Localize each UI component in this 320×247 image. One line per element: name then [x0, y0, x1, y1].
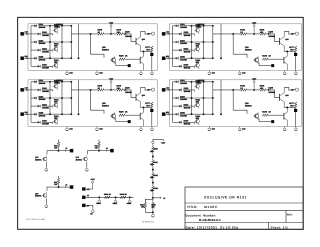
- gate U4 row5 junction b: [212, 113, 214, 115]
- gate U1 wire to Q base: [128, 34, 136, 42]
- svg-text:10K: 10K: [54, 117, 58, 120]
- gate U1 emitter pad: [128, 64, 131, 67]
- gate U4 row5 wire to bus: [180, 113, 213, 115]
- gate U4 enclosure box: [170, 80, 302, 127]
- svg-text:10K: 10K: [196, 26, 200, 29]
- gate U2 collector wire to output: [284, 31, 295, 34]
- gate U3 row1 wire: [31, 81, 34, 83]
- cell D pad 3 stub wire: [86, 205, 93, 208]
- gate U3 enclosure box: [28, 80, 157, 127]
- gate U3 row5 junction b: [70, 113, 72, 115]
- gate U1 ground symbol x39: [66, 71, 68, 72]
- bias cell A node wire: [47, 148, 59, 155]
- gate U2 mid vertical bus: [203, 26, 205, 58]
- gate U4 input terminal pad B: [162, 112, 166, 116]
- gate U3 resistor R177 ground wire: [151, 108, 153, 127]
- gate U3 row5 wire to bus: [38, 113, 71, 115]
- bias cell A output wire: [59, 150, 70, 152]
- svg-text:2N3904: 2N3904: [35, 195, 42, 198]
- svg-text:Q60: Q60: [142, 38, 145, 41]
- gate U1 row3 wire to bus: [38, 41, 71, 43]
- gate U3 emitter pad: [128, 120, 131, 123]
- gate U3 emitter wire: [141, 106, 152, 108]
- gate U1 transistor Q59: [54, 64, 58, 68]
- svg-text:1N4448: 1N4448: [125, 91, 133, 94]
- chain junction 2: [152, 182, 154, 184]
- gate U1 row4 wire: [31, 49, 38, 51]
- svg-text:1N4448: 1N4448: [42, 123, 50, 126]
- gate U4 output transistor Q60: [279, 94, 281, 101]
- gate U3 row5 junction: [61, 113, 63, 115]
- svg-text:Document Number:: Document Number:: [185, 213, 216, 217]
- gate U3 ground symbol x69: [96, 127, 98, 128]
- gate U4 row2 wire to base: [183, 89, 193, 91]
- svg-text:2N3904: 2N3904: [245, 104, 253, 107]
- svg-text:Q60: Q60: [285, 38, 288, 41]
- bias cell B transistor Q70: [84, 157, 88, 161]
- svg-text:Sheet: 1/1: Sheet: 1/1: [271, 225, 289, 229]
- gate U2 input wire B: [165, 57, 172, 59]
- gate U1 row2 wire: [31, 33, 38, 35]
- gate U1 wire to diode: [123, 33, 125, 35]
- chain wire segment 0: [152, 153, 154, 161]
- gate U2 diode D102: [179, 33, 182, 36]
- gate U4 emitter wire: [284, 106, 295, 108]
- gate U2 wire to Q base: [271, 34, 280, 42]
- cell D resistor R242: [120, 196, 126, 199]
- gate U2 resistor R178: [262, 58, 268, 61]
- gate U3 row2 wire to base: [42, 89, 52, 91]
- gate U2 transistor Q58: [196, 47, 200, 51]
- svg-text:TITLE:: TITLE:: [187, 205, 198, 209]
- gate U4 row1 junction: [203, 81, 205, 83]
- svg-text:10K: 10K: [117, 31, 121, 34]
- gate U4 ground symbol x113: [284, 127, 286, 128]
- bias cell A resistor top stub: [58, 140, 60, 143]
- gate U1 row3 wire: [31, 41, 34, 43]
- gate U1 output transistor Q60: [135, 38, 137, 45]
- bias cell B resistor top stub: [98, 140, 100, 143]
- svg-text:1N4448: 1N4448: [180, 26, 188, 29]
- gate U4 row5 junction: [203, 113, 205, 115]
- chain wire segment 1: [152, 166, 154, 174]
- gate U3 row3 wire: [31, 97, 34, 99]
- svg-text:10K: 10K: [196, 61, 200, 64]
- gate U1 emitter wire: [141, 50, 152, 52]
- svg-text:10K: 10K: [196, 82, 200, 85]
- gate U4 ground symbol x124: [295, 127, 297, 128]
- svg-text:GND1: GND1: [113, 202, 118, 205]
- gate U1 feedback bus: [90, 34, 92, 54]
- gate U4 row6 wire to base: [183, 121, 193, 123]
- svg-text:1N4448: 1N4448: [42, 106, 50, 109]
- gate U4 transistor Q64: [283, 113, 285, 120]
- chain resistor R235: [152, 203, 155, 208]
- gate U1 transistor Q64: [139, 57, 141, 64]
- svg-text:B13: B13: [25, 111, 28, 114]
- gate U1 input wire A: [24, 33, 31, 35]
- svg-text:REV:: REV:: [287, 214, 293, 217]
- gate U4 diode D101: [176, 81, 179, 84]
- svg-text:10K: 10K: [196, 44, 200, 47]
- gate U1 transistor Q58: [54, 47, 58, 51]
- gate U1 left vertical bus: [30, 26, 32, 67]
- svg-text:10K: 10K: [260, 87, 264, 90]
- svg-text:A13: A13: [25, 31, 28, 34]
- gate U3 supply rail wire: [71, 89, 98, 91]
- svg-text:Date: 10/17/2001 01:10:55a: Date: 10/17/2001 01:10:55a: [186, 225, 239, 229]
- gate U1 input terminal pad B: [20, 57, 24, 61]
- gate U4 diode D105: [176, 113, 179, 116]
- bias cell C node wire: [47, 184, 59, 191]
- gate U2 input terminal pad B: [162, 57, 166, 61]
- svg-text:1N4448: 1N4448: [184, 90, 192, 93]
- gate U3 row6 wire: [31, 121, 38, 123]
- bias cell B output wire: [99, 150, 110, 152]
- gate U1 transistor Q57: [54, 28, 58, 32]
- gate U2 output port: [295, 32, 298, 35]
- gate U3 transistor Q63: [111, 114, 115, 118]
- svg-text:A13: A13: [25, 87, 28, 90]
- sheet border frame: [18, 17, 304, 229]
- gate U1 row2 wire to base: [42, 33, 52, 35]
- gate U4 diode D102: [179, 89, 182, 92]
- gate U4 wire R178 to Q64: [268, 114, 284, 116]
- svg-text:10K: 10K: [54, 26, 58, 29]
- svg-text:2N3904: 2N3904: [245, 48, 253, 51]
- gate U2 emitter pad: [271, 64, 274, 67]
- svg-text:1N4448: 1N4448: [39, 114, 47, 117]
- gate U2 right vertical bus: [212, 26, 214, 58]
- gate U4 resistor R177: [294, 102, 297, 108]
- gate U4 ground symbol x69: [239, 127, 241, 128]
- gate U2 transistor Q64: [283, 57, 285, 64]
- cell D junction 1: [98, 196, 100, 198]
- gate U1 mid vertical bus: [61, 26, 63, 58]
- svg-text:GND0: GND0: [96, 202, 101, 205]
- bias cell B emitter wire: [86, 163, 88, 167]
- gate U4 supply rail wire: [213, 89, 241, 91]
- gate U3 row4 wire: [31, 105, 38, 107]
- gate U3 transistor Q64: [139, 113, 141, 120]
- gate U4 transistor Q57: [196, 84, 200, 88]
- bias cell B output terminal pad: [110, 149, 114, 153]
- svg-text:1N4448: 1N4448: [39, 98, 47, 101]
- gate U2 resistor R177 ground wire: [295, 52, 297, 71]
- svg-text:1N4448: 1N4448: [180, 98, 188, 101]
- gate U1 diode D105: [34, 57, 37, 60]
- chain resistor R231: [152, 160, 155, 166]
- gate U1 row5 junction: [61, 57, 63, 59]
- chain wire segment 2: [152, 179, 154, 187]
- gate U3 row4 wire to base: [42, 105, 52, 107]
- gate U4 row3 junction b: [212, 97, 214, 99]
- svg-text:A13: A13: [166, 87, 169, 90]
- cell D ground symbol 4: [92, 208, 94, 209]
- gate U4 feedback bus: [232, 90, 234, 110]
- gate U2 transistor Q63: [255, 58, 259, 62]
- gate U2 supply node junction: [253, 33, 255, 35]
- cell D ground symbol 1: [98, 199, 100, 200]
- gate U2 transistor Q59: [196, 64, 200, 68]
- gate U3 resistor R175: [98, 89, 104, 92]
- svg-text:2N3904: 2N3904: [102, 48, 110, 51]
- gate U2 row4 wire: [173, 49, 180, 51]
- svg-text:1N4448: 1N4448: [268, 91, 276, 94]
- gate U1 diode D101: [34, 25, 37, 28]
- bias cell C resistor R210: [57, 178, 60, 184]
- gate U3 left vertical bus: [30, 82, 32, 123]
- gate U4 row1 wire: [173, 81, 176, 83]
- gate U3 transistor Q57: [54, 84, 58, 88]
- gate U2 transistor Q57: [196, 28, 200, 32]
- title block sheet divider: [268, 223, 270, 230]
- svg-text:1N4448: 1N4448: [180, 42, 188, 45]
- gate U1 collector wire to output: [141, 31, 152, 34]
- gate U1 resistor R176: [117, 33, 123, 36]
- gate U1 diode D109: [125, 33, 128, 36]
- gate U2 emitter wire: [284, 50, 295, 52]
- gate U2 row5 junction b: [212, 57, 214, 59]
- gate U4 mid vertical bus: [203, 82, 205, 114]
- title block line under title: [185, 209, 303, 211]
- title block rev divider: [285, 210, 287, 222]
- chain wire segment 3: [152, 192, 154, 198]
- gate U1 collector tie wire: [143, 50, 145, 52]
- gate U4 input wire B: [165, 113, 172, 115]
- gate U2 row1 junction b: [212, 25, 214, 27]
- bias cell C node junction: [58, 186, 60, 188]
- bias cell C transistor Q70: [43, 194, 47, 198]
- gate U4 left vertical bus: [172, 82, 174, 123]
- bias cell A transistor Q70: [43, 157, 47, 161]
- gate U2 diode D109: [268, 33, 271, 36]
- gate U4 wire to Q base: [271, 90, 280, 98]
- gate U1 emitter pad wire: [115, 62, 117, 65]
- gate U3 far vertical bus: [78, 80, 80, 114]
- gate U3 output transistor Q60: [135, 94, 137, 101]
- svg-text:R231: R231: [154, 161, 158, 164]
- gate U4 input wire A: [165, 89, 172, 91]
- chain resistor R233: [152, 186, 155, 192]
- gate U3 base feed bus: [49, 82, 51, 114]
- svg-text:10K: 10K: [196, 100, 200, 103]
- gate U3 row5 wire: [31, 113, 34, 115]
- bias cell C output terminal pad: [70, 185, 74, 189]
- bias cell B node wire: [88, 148, 100, 155]
- gate U2 far vertical bus: [220, 24, 222, 58]
- svg-text:1N4448: 1N4448: [39, 58, 47, 61]
- gate U2 row1 junction: [203, 25, 205, 27]
- svg-text:1N4448: 1N4448: [42, 67, 50, 70]
- gate U3 output pad: [150, 109, 153, 112]
- cell D ground symbol 2: [115, 199, 117, 200]
- gate U4 row1 wire to bus: [180, 81, 213, 83]
- svg-text:A13: A13: [166, 31, 169, 34]
- gate U2 row2 wire to base: [183, 33, 193, 35]
- gate U3 ground symbol x113: [140, 127, 142, 128]
- gate U1 row1 junction b: [70, 25, 72, 27]
- svg-text:R233: R233: [154, 187, 158, 190]
- gate U1 row1 wire to bus: [38, 25, 71, 27]
- bias cell A emitter wire: [45, 163, 47, 167]
- gate U4 output port: [295, 88, 298, 91]
- gate U2 base feed bus: [191, 26, 193, 58]
- gate U3 diode D109: [125, 89, 128, 92]
- svg-text:J2: J2: [65, 183, 67, 186]
- gate U1 input terminal pad A: [20, 32, 24, 36]
- svg-text:1N4448: 1N4448: [39, 42, 47, 45]
- gate U2 row5 wire: [173, 57, 176, 59]
- gate U4 diode D104: [179, 105, 182, 108]
- svg-text:10K: 10K: [196, 117, 200, 120]
- chain resistor R234: [144, 203, 147, 208]
- gate U4 transistor Q58: [196, 103, 200, 107]
- gate U1 row1 junction: [61, 25, 63, 27]
- gate U3 row1 wire to bus: [38, 81, 71, 83]
- gate U2 input wire A: [165, 33, 172, 35]
- gate U4 wire rail mid: [247, 89, 260, 91]
- gate U1 ground symbol x69: [96, 71, 98, 72]
- gate U4 row3 wire: [173, 97, 176, 99]
- gate U3 wire R178 to Q64: [125, 114, 140, 116]
- gate U3 resistor R176: [117, 89, 123, 92]
- svg-text:1N4448: 1N4448: [39, 26, 47, 29]
- gate U1 diode D106: [38, 65, 41, 68]
- gate U3 diode D104: [38, 105, 41, 108]
- bias cell B node junction: [98, 150, 100, 152]
- gate U1 row3 junction: [61, 41, 63, 43]
- gate U4 transistor Q59: [196, 120, 200, 124]
- gate U1 resistor R177 ground wire: [151, 52, 153, 71]
- gate U1 row4 wire to base: [42, 49, 52, 51]
- svg-text:1N4448: 1N4448: [180, 58, 188, 61]
- gate U1 resistor R177: [150, 46, 153, 52]
- gate U4 row6 wire: [173, 121, 180, 123]
- bias cell B resistor R210: [98, 142, 101, 148]
- gate U1 ground symbol x113: [140, 71, 142, 72]
- gate U3 collector tie wire: [143, 106, 145, 108]
- gate U3 mid vertical bus: [61, 82, 63, 114]
- gate U2 ground symbol x69: [239, 71, 241, 72]
- gate U2 resistor R175: [241, 33, 247, 36]
- gate U2 row3 wire: [173, 41, 176, 43]
- gate U2 diode D101: [176, 25, 179, 28]
- cell D pad 1: [82, 187, 85, 190]
- svg-text:Q60: Q60: [142, 94, 145, 97]
- svg-text:330: 330: [54, 146, 57, 149]
- svg-text:J2: J2: [65, 147, 67, 150]
- bias cell A resistor R210: [57, 142, 60, 148]
- svg-text:10K: 10K: [54, 100, 58, 103]
- gate U3 wire to diode: [123, 89, 125, 91]
- gate U1 input wire B: [24, 57, 31, 59]
- gate U2 wire rail mid: [247, 33, 260, 35]
- gate U1 wire rail mid: [104, 33, 117, 35]
- bias cell A ground symbol: [45, 167, 47, 168]
- chain loop top wire: [145, 199, 153, 202]
- svg-text:10K: 10K: [117, 87, 121, 90]
- svg-text:Q60: Q60: [285, 94, 288, 97]
- gate U3 resistor R178: [119, 114, 125, 117]
- svg-text:2N Reference: 2N Reference: [142, 221, 155, 224]
- gate U2 row3 junction: [203, 41, 205, 43]
- svg-text:10K: 10K: [54, 44, 58, 47]
- gate U3 input terminal pad A: [20, 88, 24, 92]
- gate U2 diode D105: [176, 57, 179, 60]
- gate U2 row5 wire to bus: [180, 57, 213, 59]
- svg-text:1N4448: 1N4448: [184, 67, 192, 70]
- gate U3 feedback bus: [90, 90, 92, 110]
- gate U3 transistor Q59: [54, 120, 58, 124]
- svg-text:1N4448: 1N4448: [42, 90, 50, 93]
- title block line under docnum: [185, 222, 303, 224]
- gate U1 row6 wire: [31, 65, 38, 67]
- gate U4 emitter pad: [271, 120, 274, 123]
- gate U2 enclosure box: [170, 24, 302, 71]
- svg-text:R232: R232: [154, 174, 158, 177]
- gate U2 row4 wire to base: [183, 49, 193, 51]
- gate U3 ground symbol x124: [151, 127, 153, 128]
- gate U4 input terminal pad A: [162, 88, 166, 92]
- chain bottom junction: [152, 211, 154, 213]
- svg-text:10K: 10K: [54, 61, 58, 64]
- svg-text:330: 330: [95, 146, 98, 149]
- gate U3 resistor R177: [150, 102, 153, 108]
- bias cell C output wire: [59, 186, 70, 188]
- gate U4 wire to diode: [266, 89, 268, 91]
- svg-text:1N4448: 1N4448: [184, 50, 192, 53]
- svg-text:1N4448: 1N4448: [184, 106, 192, 109]
- gate U4 transistor Q63: [255, 114, 259, 118]
- gate U3 row2 wire: [31, 89, 38, 91]
- svg-text:1N4448: 1N4448: [180, 82, 188, 85]
- chain top port: [152, 141, 154, 143]
- gate U1 output port: [151, 32, 154, 35]
- svg-text:10K: 10K: [260, 31, 264, 34]
- gate U4 supply node junction: [253, 89, 255, 91]
- svg-text:+12: +12: [86, 188, 89, 191]
- svg-text:1K0: 1K0: [150, 150, 153, 153]
- gate U2 wire R178 to Q64: [268, 58, 284, 60]
- gate U4 row2 wire: [173, 89, 180, 91]
- cell D pad 2 wire: [86, 196, 134, 198]
- title block line under banner: [185, 202, 303, 204]
- gate U2 resistor R177: [294, 46, 297, 52]
- gate U1 supply node junction: [110, 33, 112, 35]
- svg-text:EXCLUSIVE OR R131: EXCLUSIVE OR R131: [204, 195, 247, 199]
- gate U1 output pad: [150, 53, 153, 56]
- gate U2 emitter pad wire: [258, 62, 260, 65]
- gate U3 transistor Q58: [54, 103, 58, 107]
- cell D junction 2: [115, 196, 117, 198]
- gate U3 diode D103: [34, 97, 37, 100]
- gate U3 input wire B: [24, 113, 31, 115]
- gate U3 supply node junction: [110, 89, 112, 91]
- gate U2 output pad: [294, 53, 297, 56]
- gate U4 row1 junction b: [212, 81, 214, 83]
- chain resistor R230: [152, 147, 155, 153]
- svg-text:1K0: 1K0: [150, 189, 153, 192]
- gate U4 emitter pad wire: [258, 118, 260, 121]
- gate U2 ground symbol x39: [208, 71, 210, 72]
- gate U3 wire to Q base: [128, 90, 136, 98]
- gate U1 diode D102: [38, 33, 41, 36]
- gate U1 diode D103: [34, 41, 37, 44]
- gate U1 row5 junction b: [70, 57, 72, 59]
- gate U4 diode D109: [268, 89, 271, 92]
- gate U2 collector tie wire: [286, 50, 288, 52]
